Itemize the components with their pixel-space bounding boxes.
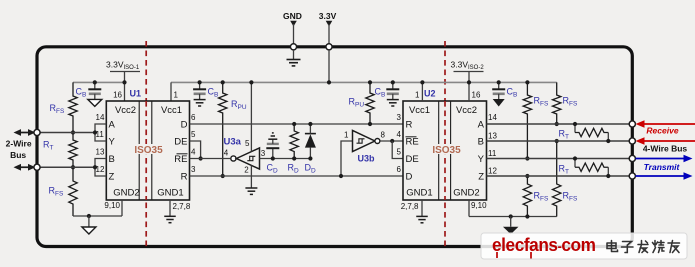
resistor RFS (right bottom-right, pull-down B) [553, 141, 561, 217]
svg-text:Y: Y [109, 136, 116, 147]
resistor RFS (right top-right, pull-up A) [553, 82, 561, 124]
svg-text:3: 3 [261, 149, 266, 158]
svg-text:1: 1 [344, 131, 349, 140]
resistor RFS (left bottom) [69, 167, 77, 216]
op-amp U3a (schmitt buffer) [231, 156, 236, 161]
node bus1 on border [34, 129, 40, 135]
diode DD [309, 148, 311, 159]
isolated ground (filled triangle) below CB iso-2 [493, 99, 505, 107]
2-wire bus external arrow 2 [21, 166, 28, 168]
svg-text:5: 5 [245, 139, 250, 148]
wire data line U1.R to U2.D [190, 175, 404, 177]
U1 pin bracket A/Y [95, 124, 106, 141]
svg-text:4-Wire Bus: 4-Wire Bus [643, 144, 688, 154]
svg-text:A: A [109, 119, 116, 130]
capacitor CB (logic left) [199, 82, 201, 89]
svg-text:A: A [478, 119, 485, 130]
svg-text:2,7,8: 2,7,8 [401, 202, 419, 211]
wire U2 Vcc1 stub [421, 82, 423, 101]
ground (earth) below CB logic-right [387, 99, 399, 101]
resistor RT (top, A-B termination) [574, 124, 576, 133]
capacitor CB (logic right) [392, 82, 394, 89]
wire bus line A [487, 123, 633, 125]
svg-text:1: 1 [174, 91, 179, 100]
node bus A on border [629, 121, 635, 127]
resistor RFS (left top) [69, 82, 77, 132]
svg-text:13: 13 [488, 132, 497, 141]
resistor RPU (left) [219, 82, 227, 176]
wire U3a output to U1 RE [190, 158, 231, 160]
svg-text:GND: GND [283, 11, 302, 21]
svg-text:Vcc2: Vcc2 [456, 105, 477, 116]
svg-text:9,10: 9,10 [471, 201, 487, 210]
wire bus line B [487, 140, 633, 142]
svg-text:1: 1 [415, 91, 420, 100]
ground (earth) below CB logic-left [194, 99, 206, 101]
svg-text:2: 2 [244, 166, 249, 175]
wire U3a gnd stub [250, 166, 252, 189]
svg-text:6: 6 [397, 165, 402, 174]
svg-text:Z: Z [478, 171, 484, 182]
transmit arrow 1 [636, 158, 684, 160]
receive arrow 2 [645, 140, 695, 142]
isolation barrier (U2) [444, 41, 446, 247]
svg-text:4: 4 [224, 149, 229, 158]
svg-text:RE: RE [174, 154, 187, 165]
svg-text:5: 5 [397, 148, 402, 157]
op-amp U3b (schmitt inverter) [341, 141, 353, 176]
resistor RPU (right) [366, 82, 374, 124]
svg-text:2-Wire: 2-Wire [6, 138, 32, 148]
wire U1 Vcc1 stub [170, 82, 172, 101]
svg-text:ISO35: ISO35 [432, 145, 461, 156]
svg-text:U1: U1 [130, 89, 142, 99]
resistor RT (left) [69, 133, 77, 168]
svg-text:3: 3 [191, 165, 196, 174]
svg-text:11: 11 [96, 130, 105, 139]
wire isolated ground bus (U1 side) [73, 215, 122, 217]
svg-text:3.3V: 3.3V [319, 11, 337, 21]
ground (earth) below GND node [293, 50, 295, 60]
svg-text:elecfans-com: elecfans-com [492, 234, 596, 255]
op-amp U1 ISO35 chip body [106, 101, 189, 200]
wire U2 RE/DE tie [392, 141, 403, 159]
svg-text:DE: DE [174, 136, 187, 147]
svg-text:5: 5 [191, 130, 196, 139]
U2 GND2 pin stub [468, 200, 470, 217]
svg-text:12: 12 [488, 167, 497, 176]
junction rail/3.3V [327, 80, 331, 84]
label ISO35 (U2) [432, 144, 463, 154]
resistor RT (bottom, Y-Z termination) [574, 159, 576, 168]
svg-text:Bus: Bus [10, 150, 26, 160]
svg-text:U3b: U3b [358, 154, 376, 164]
watermark panel [481, 233, 687, 259]
svg-text:GND1: GND1 [406, 187, 432, 198]
svg-text:8: 8 [381, 131, 386, 140]
svg-text:3: 3 [397, 113, 402, 122]
node GND on border [290, 44, 296, 50]
svg-text:Vcc1: Vcc1 [409, 105, 430, 116]
svg-text:Y: Y [478, 154, 485, 165]
wire bus line Z [487, 175, 633, 177]
svg-text:13: 13 [96, 148, 105, 157]
U1 GND1 pin stub [169, 200, 171, 216]
node bus Z on border [629, 173, 635, 179]
resistor RFS (right bottom-left, pull-down Z) [523, 176, 531, 217]
ground (earth) U3a [245, 187, 257, 189]
svg-text:9,10: 9,10 [104, 201, 120, 210]
svg-text:B: B [478, 136, 484, 147]
capacitor CB (iso-2) [498, 82, 500, 89]
watermark chinese characters [607, 241, 680, 253]
svg-text:B: B [109, 154, 115, 165]
node bus B on border [629, 138, 635, 144]
capacitor CB (iso-1) [94, 82, 96, 89]
svg-text:R: R [181, 171, 188, 182]
svg-text:2,7,8: 2,7,8 [173, 202, 191, 211]
svg-text:GND2: GND2 [453, 187, 479, 198]
receive arrow 1 [645, 123, 695, 125]
U1 GND2 pin stub [121, 200, 123, 216]
svg-text:6: 6 [191, 113, 196, 122]
node bus Y on border [629, 155, 635, 161]
watermark elecfans.com [492, 234, 596, 255]
svg-text:4: 4 [191, 148, 196, 157]
svg-text:GND1: GND1 [157, 187, 183, 198]
U1 pin bracket B/Z [95, 159, 106, 177]
svg-text:R: R [406, 119, 413, 130]
wire ISO-1 tap / U1 Vcc2 stub [124, 72, 126, 102]
wire U1 DE tie to RE [190, 141, 201, 159]
svg-text:16: 16 [113, 91, 122, 100]
2-wire bus external arrow 1 [21, 132, 28, 134]
svg-text:Receive: Receive [646, 126, 678, 136]
svg-text:GND2: GND2 [113, 187, 139, 198]
svg-text:DE: DE [406, 154, 419, 165]
isolation barrier (U1) [145, 41, 147, 247]
transmit arrow 2 [636, 175, 684, 177]
node bus2 on border [34, 164, 40, 170]
label ISO35 (U1) [133, 144, 164, 154]
wire ISO-2 tap / U2 Vcc2 stub [468, 72, 470, 102]
wire U3a input node line [260, 158, 311, 160]
3.3V ISO-2 rail [556, 81, 558, 83]
node 3.3V on border [326, 44, 332, 50]
svg-text:Vcc1: Vcc1 [161, 105, 182, 116]
svg-text:U3a: U3a [224, 137, 242, 148]
svg-text:4: 4 [397, 130, 402, 139]
ground (earth) U1 GND1 [164, 215, 176, 217]
svg-text:Z: Z [109, 171, 115, 182]
resistor RFS (right top-left, pull-up Y) [523, 82, 531, 158]
isolated ground (filled triangle) U2 side [503, 227, 519, 235]
isolated ground (open triangle) below CB iso-1 [88, 99, 102, 106]
svg-text:D: D [181, 119, 188, 130]
svg-text:U2: U2 [424, 89, 436, 99]
op-amp U2 ISO35 chip body [403, 101, 487, 200]
wire isolated ground bus (U2 side) [469, 216, 557, 218]
enclosure box [37, 47, 632, 247]
3.3V ISO-1 rail [73, 81, 125, 83]
U2 GND1 pin stub [421, 200, 423, 216]
svg-text:ISO35: ISO35 [134, 145, 163, 156]
wire bus line Y [487, 158, 633, 160]
wire U3a Vcc stub [250, 82, 252, 151]
resistor RD [290, 124, 298, 159]
svg-text:Transmit: Transmit [644, 162, 681, 172]
wire 2-wire bus line 2 [37, 166, 95, 168]
svg-text:Vcc2: Vcc2 [115, 105, 136, 116]
wire data line U2.R to U1.D [190, 123, 404, 125]
capacitor CD with inverted ground [272, 148, 274, 158]
wire 2-wire bus line 1 [37, 132, 95, 134]
svg-text:14: 14 [96, 113, 105, 122]
svg-text:D: D [406, 171, 413, 182]
wire U3b output to U2 RE [380, 140, 403, 142]
svg-text:14: 14 [488, 113, 497, 122]
wire 3.3V drop to rail [328, 50, 330, 83]
svg-text:11: 11 [488, 149, 497, 158]
svg-text:RE: RE [406, 136, 419, 147]
3.3V rail [171, 81, 557, 83]
svg-text:16: 16 [472, 91, 481, 100]
isolated ground (open triangle) U1 side [82, 227, 96, 234]
ground (earth) U2 GND1 [416, 215, 428, 217]
svg-text:12: 12 [96, 165, 105, 174]
